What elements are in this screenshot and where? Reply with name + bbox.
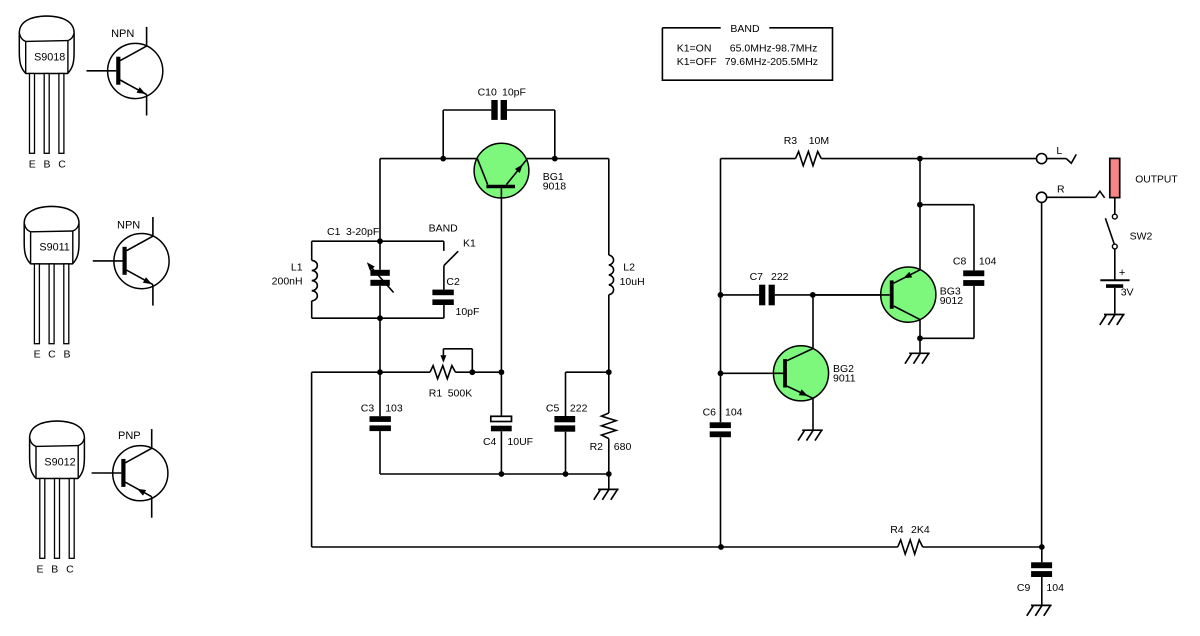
svg-text:222: 222 [771, 271, 789, 283]
svg-text:9011: 9011 [833, 372, 856, 384]
svg-text:65.0MHz-98.7MHz: 65.0MHz-98.7MHz [730, 42, 818, 54]
svg-text:9012: 9012 [940, 295, 964, 307]
svg-text:9018: 9018 [543, 181, 567, 193]
svg-text:C9: C9 [1017, 582, 1031, 594]
svg-text:2K4: 2K4 [911, 524, 930, 536]
svg-text:OUTPUT: OUTPUT [1135, 175, 1178, 186]
svg-text:R4: R4 [890, 524, 904, 536]
svg-text:3-20pF: 3-20pF [346, 226, 379, 238]
svg-text:K1=ON: K1=ON [677, 42, 712, 54]
svg-text:200nH: 200nH [272, 276, 303, 288]
svg-text:R: R [1057, 183, 1065, 195]
svg-text:K1: K1 [463, 237, 476, 249]
svg-text:S9018: S9018 [34, 51, 65, 63]
svg-text:R3: R3 [784, 135, 798, 147]
svg-text:C8: C8 [953, 256, 967, 268]
svg-text:K1=OFF: K1=OFF [677, 56, 717, 68]
svg-text:C: C [58, 158, 66, 170]
svg-text:B: B [51, 563, 58, 575]
svg-text:C6: C6 [703, 407, 717, 419]
svg-text:R2: R2 [590, 441, 604, 453]
svg-text:C4: C4 [483, 436, 497, 448]
svg-text:104: 104 [979, 256, 997, 268]
svg-text:500K: 500K [448, 388, 473, 400]
svg-text:10UF: 10UF [507, 436, 533, 448]
svg-text:NPN: NPN [117, 219, 140, 231]
svg-text:BAND: BAND [429, 222, 459, 234]
svg-text:BAND: BAND [730, 23, 760, 35]
svg-text:C2: C2 [446, 276, 460, 288]
svg-text:104: 104 [1046, 582, 1064, 594]
svg-text:10pF: 10pF [456, 306, 480, 318]
svg-text:S9012: S9012 [44, 456, 75, 468]
svg-text:+: + [1119, 267, 1125, 279]
svg-text:C1: C1 [327, 226, 341, 238]
svg-text:B: B [63, 349, 70, 361]
svg-text:C7: C7 [750, 271, 764, 283]
svg-text:222: 222 [570, 403, 588, 415]
svg-text:680: 680 [614, 441, 632, 453]
svg-text:PNP: PNP [118, 430, 141, 442]
svg-text:3V: 3V [1121, 287, 1134, 299]
svg-text:C: C [66, 563, 74, 575]
svg-text:B: B [43, 158, 50, 170]
svg-text:104: 104 [725, 407, 743, 419]
svg-text:R1: R1 [429, 388, 443, 400]
svg-text:E: E [29, 158, 36, 170]
svg-text:E: E [36, 563, 43, 575]
svg-text:SW2: SW2 [1130, 231, 1153, 243]
svg-text:79.6MHz-205.5MHz: 79.6MHz-205.5MHz [725, 56, 818, 68]
svg-text:L: L [1056, 145, 1062, 157]
svg-text:10uH: 10uH [620, 276, 645, 288]
svg-text:L2: L2 [623, 261, 635, 273]
svg-text:C: C [48, 349, 56, 361]
svg-text:10pF: 10pF [502, 87, 526, 99]
svg-text:103: 103 [385, 403, 403, 415]
svg-text:NPN: NPN [111, 28, 134, 40]
svg-text:C3: C3 [361, 403, 375, 415]
svg-text:S9011: S9011 [39, 242, 69, 254]
svg-text:L1: L1 [291, 261, 303, 273]
svg-text:E: E [34, 349, 41, 361]
svg-text:10M: 10M [809, 135, 829, 147]
svg-text:C10: C10 [478, 87, 497, 99]
svg-text:C5: C5 [546, 403, 560, 415]
